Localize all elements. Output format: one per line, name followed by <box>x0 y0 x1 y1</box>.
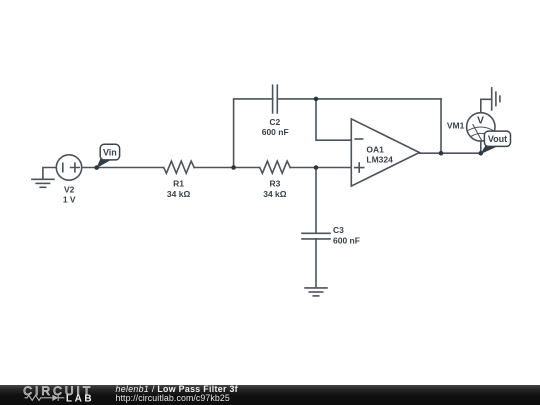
svg-text:34 kΩ: 34 kΩ <box>263 189 287 199</box>
wire VM1 top to ground <box>481 99 491 112</box>
flag Vout <box>480 131 510 154</box>
op-amp U1 OA1 <box>351 119 419 186</box>
wire tap to op-amp - input <box>316 99 351 140</box>
label C2 value <box>262 117 289 137</box>
label R1 value <box>167 179 191 200</box>
svg-text:1 V: 1 V <box>63 195 76 205</box>
wire node A up to C2 <box>234 99 273 168</box>
svg-text:C2: C2 <box>269 117 280 127</box>
wire R3 to op-amp + input <box>290 167 351 169</box>
ground GND2 (below C3) <box>305 288 327 296</box>
svg-text:OA1: OA1 <box>366 145 384 155</box>
junction output/feedback <box>439 151 444 156</box>
svg-text:C3: C3 <box>333 225 344 235</box>
svg-text:LM324: LM324 <box>366 154 393 164</box>
svg-text:600 nF: 600 nF <box>262 127 289 137</box>
junction node A (R1/R3/C2) <box>231 165 236 170</box>
label V2 value <box>63 185 76 205</box>
junction output/VM1 (node Vout) <box>479 151 484 156</box>
svg-text:600 nF: 600 nF <box>333 235 360 245</box>
svg-text:VM1: VM1 <box>447 121 465 131</box>
svg-text:R3: R3 <box>269 179 280 189</box>
wire C2 to feedback corner <box>277 98 441 100</box>
wire feedback down to output <box>440 99 442 153</box>
footer title text <box>116 384 238 403</box>
wire C3 branch down <box>315 168 317 234</box>
svg-text:Vout: Vout <box>488 134 507 144</box>
svg-text:LAB: LAB <box>66 394 94 405</box>
svg-text:Vin: Vin <box>103 147 117 157</box>
label OA1 LM324 <box>366 145 393 165</box>
ground GND1 (left, for V2) <box>32 168 57 188</box>
junction node B (R3/C3/+in) <box>314 165 319 170</box>
logo CIRCUITLAB <box>23 384 94 404</box>
svg-text:R1: R1 <box>173 179 184 189</box>
junction feedback tap <box>314 97 319 102</box>
flag Vin <box>96 144 119 168</box>
junction node Vin <box>94 165 99 170</box>
wire op-amp output <box>419 152 480 154</box>
resistor R1 <box>164 161 194 173</box>
resistor R3 <box>260 161 291 173</box>
wire C3 to ground <box>315 239 317 288</box>
svg-text:http://circuitlab.com/c97kb25: http://circuitlab.com/c97kb25 <box>116 393 230 403</box>
wire R1 to R3 <box>194 167 260 169</box>
label R3 value <box>263 179 287 200</box>
label C3 value <box>333 225 360 245</box>
wire VM1 bottom to output node <box>480 141 482 153</box>
labels (component names/values) <box>63 115 484 245</box>
svg-text:V: V <box>477 115 484 126</box>
voltage source V2 <box>56 155 81 180</box>
ground GND3 (top right, rotated) <box>492 88 500 110</box>
wire V2 to R1 (node Vin) <box>82 167 164 169</box>
svg-text:V2: V2 <box>64 185 75 195</box>
voltmeter VM1 <box>467 113 495 141</box>
footer bar <box>0 385 540 405</box>
svg-text:34 kΩ: 34 kΩ <box>167 189 191 199</box>
capacitor C3 <box>302 233 330 239</box>
capacitor C2 <box>273 85 278 113</box>
